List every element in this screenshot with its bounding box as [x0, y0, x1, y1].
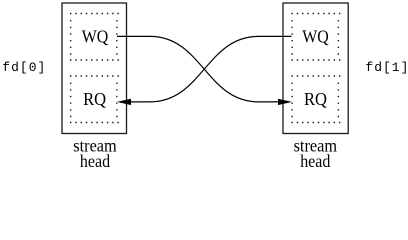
svg-text:WQ: WQ [302, 27, 329, 47]
svg-text:RQ: RQ [83, 89, 106, 109]
svg-text:WQ: WQ [82, 27, 109, 47]
left WQ dotted queue box [70, 14, 119, 61]
left RQ dotted queue box [70, 76, 119, 123]
right RQ dotted queue box [292, 76, 341, 123]
arrowhead into right RQ [278, 99, 292, 105]
arrowhead into left RQ [117, 99, 131, 105]
svg-text:head: head [80, 151, 110, 171]
wire: right WQ to left RQ [130, 36, 292, 102]
right WQ dotted queue box [292, 14, 341, 61]
svg-text:head: head [300, 151, 330, 171]
svg-text:fd[0]: fd[0] [2, 60, 46, 75]
left stream head box [62, 3, 127, 134]
svg-text:RQ: RQ [304, 89, 327, 109]
svg-text:fd[1]: fd[1] [365, 60, 408, 75]
wire: left WQ to right RQ [117, 36, 279, 102]
right stream head box [283, 3, 348, 134]
